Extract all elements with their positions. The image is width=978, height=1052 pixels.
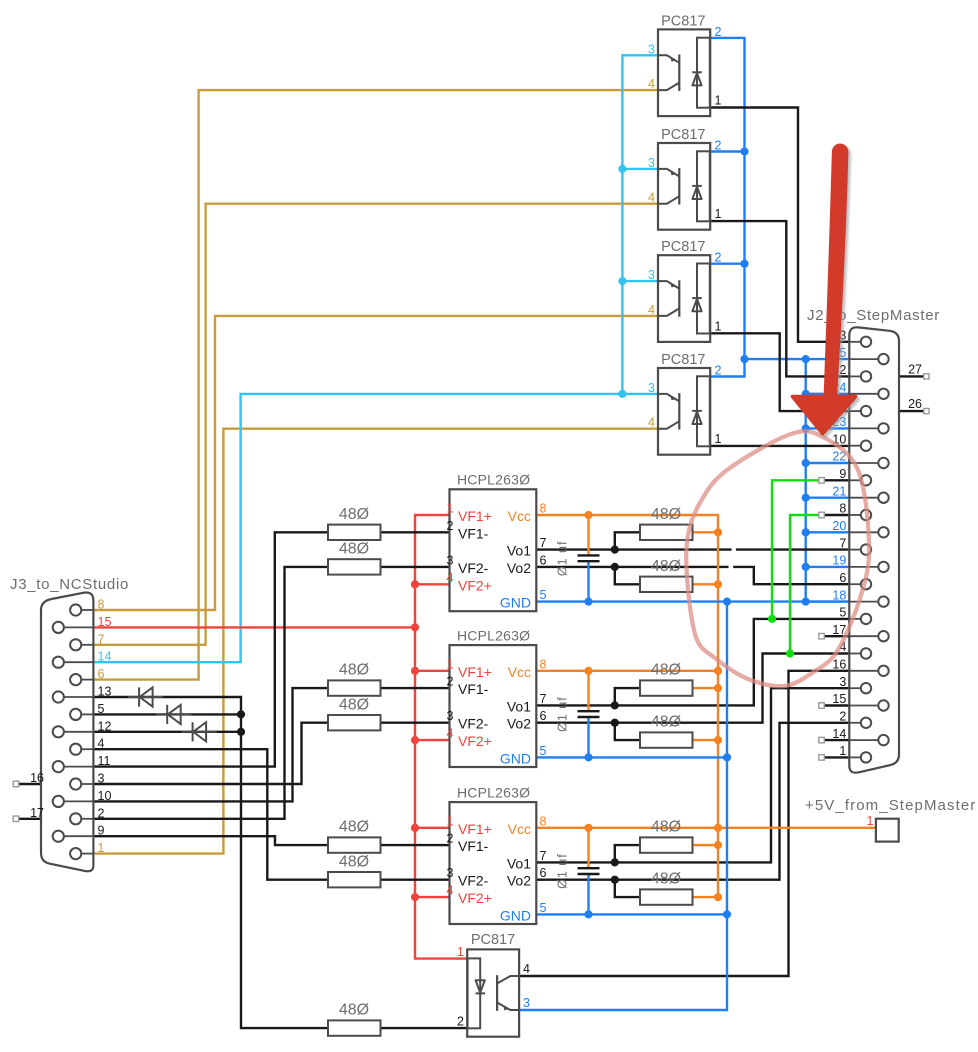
svg-text:1: 1 xyxy=(715,319,722,333)
terminator: J2 pin 15 square xyxy=(819,703,825,709)
wire: J3 pin16 stub xyxy=(19,783,42,785)
terminator: J2 pin 17 square xyxy=(819,633,825,639)
svg-text:4: 4 xyxy=(648,416,655,430)
wire: blue stub to J2 pin 22 xyxy=(806,462,850,464)
svg-text:2: 2 xyxy=(715,251,722,265)
svg-text:48Ø: 48Ø xyxy=(651,506,681,523)
J2 pin 11 circle and stub xyxy=(861,406,871,416)
svg-text:4: 4 xyxy=(648,77,655,91)
wire: black J3 pin4 to HCPL U7 VF2- xyxy=(93,749,328,880)
resistor R5a 480 input U5 pin2 xyxy=(328,525,381,540)
wire: blue GND stub HCPL U7 xyxy=(536,913,727,915)
svg-text:4: 4 xyxy=(447,727,454,741)
J2 pin 17 circle and stub xyxy=(878,631,888,641)
wire: blue stub to J2 pin 23 xyxy=(806,427,850,429)
J2 pin 8 circle and stub xyxy=(861,510,871,520)
wire: HCPL U6 Vo1 to J2 pin5 xyxy=(536,619,849,706)
terminator: J3 17 square xyxy=(13,816,19,822)
svg-text:VF2-: VF2- xyxy=(458,873,489,889)
svg-text:1: 1 xyxy=(457,945,464,959)
svg-text:20: 20 xyxy=(832,519,846,533)
capacitor C1 01uf xyxy=(578,555,600,561)
svg-text:Ø1 uf: Ø1 uf xyxy=(556,541,570,577)
svg-text:VF1+: VF1+ xyxy=(458,664,492,680)
svg-text:Vcc: Vcc xyxy=(508,821,531,837)
J2 pin 23 circle and stub xyxy=(878,423,888,433)
op-amp U6 HCPL2630 optocoupler xyxy=(450,645,537,767)
wire: red anode bus VF1+/VF2+ xyxy=(415,515,467,959)
wire: orange capacitor lead 827.8 xyxy=(587,828,589,869)
junction: blue bus dots xyxy=(740,147,748,155)
svg-text:Vo1: Vo1 xyxy=(507,543,531,559)
svg-text:2: 2 xyxy=(715,364,722,378)
wire: blue stub to J2 pin 21 xyxy=(806,497,850,499)
optocoupler U4 PC817 xyxy=(658,368,710,455)
svg-text:48Ø: 48Ø xyxy=(339,819,369,836)
svg-text:14: 14 xyxy=(98,650,112,664)
svg-text:13: 13 xyxy=(98,685,112,699)
svg-text:15: 15 xyxy=(832,692,846,706)
capacitor C3 01uf xyxy=(578,868,600,874)
wire: black PC817 U1 pin1 to J2 pin13 xyxy=(710,108,849,342)
wire: black PC817 U2 pin1 to J2 pin12 xyxy=(710,221,849,376)
svg-text:VF2+: VF2+ xyxy=(458,890,492,906)
optocoupler U1 PC817 xyxy=(658,29,710,116)
J2 pin 9 circle and stub xyxy=(861,475,871,485)
svg-text:6: 6 xyxy=(540,553,547,567)
wire: blue capacitor lead 515.0 xyxy=(587,561,589,602)
J3 pin 13 circle and stub xyxy=(53,691,64,702)
wire: black stub J2 pin 14 xyxy=(824,739,849,741)
J3 pin 9 circle and stub xyxy=(53,831,64,842)
J3 pin 15 circle and stub xyxy=(53,622,64,633)
svg-text:1: 1 xyxy=(447,814,454,828)
svg-text:VF1+: VF1+ xyxy=(458,821,492,837)
wire: black J3 pin3 to HCPL U6 VF2- xyxy=(93,723,328,784)
J2 pin 1 circle and stub xyxy=(861,752,871,762)
svg-text:3: 3 xyxy=(648,42,655,56)
svg-text:2: 2 xyxy=(715,25,722,39)
terminator: J2 26 square xyxy=(924,409,929,414)
svg-text:VF2+: VF2+ xyxy=(458,577,492,593)
J2 pin 21 circle and stub xyxy=(878,493,888,503)
resistor R5b 480 input U5 pin3 xyxy=(328,559,381,574)
wire: orange HCPL U7 Vcc row to +5V terminal xyxy=(536,827,876,829)
J2 pin 25 circle and stub xyxy=(878,354,888,364)
diode D1 on J3 pin 13 line xyxy=(128,687,163,706)
svg-text:26: 26 xyxy=(908,397,922,411)
svg-text:Vo2: Vo2 xyxy=(507,873,531,889)
svg-text:3: 3 xyxy=(98,772,105,786)
svg-text:48Ø: 48Ø xyxy=(339,506,369,523)
wire: input resistor leads HCPL Vcc 515.0 xyxy=(381,531,450,533)
J2 pin 2 circle and stub xyxy=(861,718,871,728)
svg-text:J3_to_NCStudio: J3_to_NCStudio xyxy=(10,576,129,593)
svg-text:GND: GND xyxy=(500,595,531,611)
J2 pin 12 circle and stub xyxy=(861,371,871,381)
svg-text:18: 18 xyxy=(832,588,846,602)
svg-text:48Ø: 48Ø xyxy=(339,696,369,713)
svg-text:16: 16 xyxy=(30,771,44,785)
J3 pin 5 circle and stub xyxy=(70,709,81,720)
op-amp U5 HCPL2630 optocoupler xyxy=(450,489,537,611)
diode D3 on J3 pin 12 line xyxy=(182,722,217,741)
svg-text:14: 14 xyxy=(832,727,846,741)
resistor R7d 480 output Vo2 xyxy=(640,889,693,904)
capacitor C2 01uf xyxy=(578,711,600,717)
wire: blue GND row HCPL U5 to J2 pin18 xyxy=(536,600,849,602)
svg-text:8: 8 xyxy=(839,502,846,516)
J2 pin 14 circle and stub xyxy=(878,735,888,745)
svg-text:1: 1 xyxy=(98,841,105,855)
resistor R5c 480 output Vo1 xyxy=(640,525,693,540)
svg-text:1: 1 xyxy=(715,94,722,108)
svg-text:4: 4 xyxy=(648,191,655,205)
wire: black stub J2 pin 17 xyxy=(824,635,849,637)
svg-text:8: 8 xyxy=(540,657,547,671)
diode D2 on J3 pin 5 line xyxy=(156,705,191,724)
wire: black stub J2 pin 9 xyxy=(824,479,849,481)
svg-text:Vcc: Vcc xyxy=(508,508,531,524)
J2 pin 18 circle and stub xyxy=(878,596,888,606)
resistor R7a 480 input U7 pin2 xyxy=(328,837,381,852)
J3 pin 14 circle and stub xyxy=(53,657,64,668)
wire: J3 pin17 stub xyxy=(19,818,42,820)
svg-text:2: 2 xyxy=(457,1014,464,1028)
svg-text:11: 11 xyxy=(98,754,111,768)
svg-text:7: 7 xyxy=(839,536,846,550)
resistor R6b 480 input U6 pin3 xyxy=(328,715,381,730)
junction: red bus dots xyxy=(411,580,419,588)
wire: black J3 pin11 to HCPL U5 VF1- xyxy=(93,532,328,766)
wire: black stub J2 pin 1 xyxy=(824,756,849,758)
wire: red stub HCPL U6 pin1 xyxy=(415,670,450,672)
wire: J2 pin27 stub xyxy=(899,375,924,377)
junction: blue GND dots xyxy=(723,598,731,606)
svg-text:48Ø: 48Ø xyxy=(339,662,369,679)
connector +5V_from_StepMaster terminal xyxy=(876,819,899,842)
terminator: J2 pin 1 square xyxy=(819,755,825,761)
svg-text:4: 4 xyxy=(523,962,530,976)
svg-text:21: 21 xyxy=(832,484,846,498)
wire: blue stub to J2 pin 18 xyxy=(806,600,850,602)
wire: HCPL U5 Vo2 to J2 pin6 (with gap) xyxy=(536,566,728,568)
resistor R7b 480 input U7 pin3 xyxy=(328,872,381,887)
svg-text:6: 6 xyxy=(540,709,547,723)
J3 pin 7 circle and stub xyxy=(70,639,81,650)
svg-text:6: 6 xyxy=(98,667,105,681)
J2 pin 5 circle and stub xyxy=(861,614,871,624)
svg-text:GND: GND xyxy=(500,907,531,923)
svg-text:16: 16 xyxy=(832,658,846,672)
svg-text:1: 1 xyxy=(447,502,454,516)
op-amp U7 HCPL2630 optocoupler xyxy=(450,802,537,924)
svg-text:Vo2: Vo2 xyxy=(507,560,531,576)
wire: red stub HCPL pin4 row 827.8 xyxy=(415,896,450,898)
wire: output resistor jogs HCPL Vcc 827.8 xyxy=(615,845,640,862)
svg-text:VF2+: VF2+ xyxy=(458,733,492,749)
resistor R9 480 bottom PC817 input xyxy=(328,1020,381,1035)
resistor R7c 480 output Vo1 xyxy=(640,837,693,852)
wire: black PC817 U3 pin1 to J2 pin11 xyxy=(710,333,849,411)
svg-text:2: 2 xyxy=(839,710,846,724)
svg-text:7: 7 xyxy=(98,632,105,646)
terminator: J2 pin 8 square xyxy=(819,512,825,518)
J2 pin 7 circle and stub xyxy=(861,544,871,554)
svg-text:19: 19 xyxy=(832,554,846,568)
wire: blue stub to J2 pin 20 xyxy=(806,531,850,533)
wire: bottom resistor to PC817 U5 pin2 xyxy=(381,1027,468,1029)
svg-text:7: 7 xyxy=(540,536,547,550)
svg-text:5: 5 xyxy=(839,606,846,620)
J2 pin 22 circle and stub xyxy=(878,458,888,468)
wire: black J3 pin9 to HCPL U7 VF1- xyxy=(93,836,328,845)
svg-text:5: 5 xyxy=(98,702,105,716)
svg-text:8: 8 xyxy=(540,502,547,516)
svg-text:VF1+: VF1+ xyxy=(458,508,492,524)
connector J2_to_StepMaster outline xyxy=(849,327,899,772)
wire: black PC817 U4 pin1 to J2 pin10 xyxy=(710,445,849,447)
wire: blue GND vertical bus xyxy=(519,602,727,1010)
svg-text:5: 5 xyxy=(540,744,547,758)
svg-text:48Ø: 48Ø xyxy=(651,714,681,731)
connector J3_to_NCStudio outline xyxy=(41,592,93,871)
wire: blue stub PC817 U3 pin2 xyxy=(710,263,744,265)
svg-text:3: 3 xyxy=(523,996,530,1010)
J2 pin 20 circle and stub xyxy=(878,527,888,537)
svg-text:2: 2 xyxy=(447,832,454,846)
J2 pin 24 circle and stub xyxy=(878,389,888,399)
resistor R6c 480 output Vo1 xyxy=(640,680,693,695)
wire: blue GND stub HCPL U6 xyxy=(536,756,727,758)
wire: blue capacitor lead 670.8 xyxy=(587,717,589,758)
svg-text:Vo1: Vo1 xyxy=(507,698,531,714)
wire: black J3 pin5 to chain xyxy=(93,713,241,715)
J3 pin 2 circle and stub xyxy=(70,813,81,824)
svg-text:7: 7 xyxy=(540,692,547,706)
svg-text:48Ø: 48Ø xyxy=(339,853,369,870)
svg-text:48Ø: 48Ø xyxy=(339,541,369,558)
terminator: J3 16 square xyxy=(13,781,19,787)
svg-text:4: 4 xyxy=(98,737,105,751)
wire: HCPL U7 Vo1 to J2 pin3 xyxy=(536,688,849,862)
svg-text:Ø1 uf: Ø1 uf xyxy=(556,696,570,732)
svg-text:+5V_from_StepMaster: +5V_from_StepMaster xyxy=(805,797,976,814)
wire: output resistor jogs HCPL Vcc 515.0 xyxy=(615,532,640,549)
wire: black stub J2 pin 8 xyxy=(824,514,849,516)
wire: olive net J3 pin1 to PC817 U4 pin4 xyxy=(93,429,658,854)
wire: HCPL U6 Vo2 to J2 pin4 xyxy=(536,654,849,723)
J3 pin 6 circle and stub xyxy=(70,674,81,685)
wire: olive net J3 pin6 to PC817 U1 pin4 xyxy=(93,90,658,680)
svg-text:1: 1 xyxy=(447,657,454,671)
wire: J2 pin26 stub xyxy=(899,410,924,412)
svg-text:2: 2 xyxy=(447,519,454,533)
svg-text:GND: GND xyxy=(500,750,531,766)
wire: green J2 pin8 to J2 pin4 row xyxy=(790,515,819,654)
svg-text:Vo2: Vo2 xyxy=(507,716,531,732)
svg-text:3: 3 xyxy=(447,709,454,723)
wire: orange HCPL U6 Vcc stub xyxy=(536,670,718,672)
svg-text:9: 9 xyxy=(839,467,846,481)
svg-text:HCPL263Ø: HCPL263Ø xyxy=(457,627,530,643)
wire: red stub HCPL pin4 row 670.8 xyxy=(415,739,450,741)
J3 pin 12 circle and stub xyxy=(53,726,64,737)
svg-text:1: 1 xyxy=(867,814,874,828)
wire: blue link to J2 bus xyxy=(745,358,806,360)
svg-text:3: 3 xyxy=(447,866,454,880)
wire: blue J2 vertical bus xyxy=(805,359,807,601)
J3 pin 8 circle and stub xyxy=(70,604,81,615)
junction: cyan bus junctions xyxy=(618,165,626,173)
svg-text:12: 12 xyxy=(98,719,112,733)
wire: PC817 U5 pin4 to J2 pin16 xyxy=(519,671,849,976)
wire: cyan net J3 pin14 to PC817 pin3 bus xyxy=(93,394,658,662)
wire: output resistor jogs HCPL Vcc 670.8 xyxy=(615,688,640,705)
svg-text:3: 3 xyxy=(648,381,655,395)
wire: input resistor leads HCPL Vcc 827.8 xyxy=(381,844,450,846)
svg-text:8: 8 xyxy=(540,814,547,828)
wire: red stub HCPL pin4 row 515.0 xyxy=(415,583,450,585)
wire: cyan stub PC817 U3 pin3 xyxy=(622,280,658,282)
wire: black J3 pin12 to chain xyxy=(93,731,241,733)
optocoupler U2 PC817 xyxy=(658,143,710,230)
J2 pin 16 circle and stub xyxy=(878,666,888,676)
J3 pin 3 circle and stub xyxy=(70,778,81,789)
svg-text:VF1-: VF1- xyxy=(458,525,489,541)
wire: orange Vcc bus xyxy=(536,515,718,897)
wire: blue stub PC817 U2 pin2 xyxy=(710,150,744,152)
svg-text:7: 7 xyxy=(540,849,547,863)
svg-text:2: 2 xyxy=(447,675,454,689)
svg-text:VF1-: VF1- xyxy=(458,681,489,697)
svg-text:2: 2 xyxy=(715,139,722,153)
J2 pin 10 circle and stub xyxy=(861,441,871,451)
wire: black J3 pin10 to HCPL U6 VF1- xyxy=(93,688,328,801)
svg-text:PC817: PC817 xyxy=(661,13,705,29)
wire: orange output resistor leads 827.8 xyxy=(693,844,719,846)
wire: HCPL U7 Vo2 to J2 pin2 xyxy=(536,723,849,880)
junction: diode chain dots xyxy=(237,710,245,718)
J2 pin 13 circle and stub xyxy=(861,337,871,347)
svg-text:Vcc: Vcc xyxy=(508,664,531,680)
svg-text:9: 9 xyxy=(98,824,105,838)
optocoupler U3 PC817 xyxy=(658,255,710,342)
wire: orange capacitor lead 670.8 xyxy=(587,671,589,712)
wire: blue PC817 pin2 bus xyxy=(710,38,744,377)
wire: blue capacitor lead 827.8 xyxy=(587,874,589,915)
J2 pin 19 circle and stub xyxy=(878,562,888,572)
J3 pin 1 circle and stub xyxy=(70,848,81,859)
svg-text:4: 4 xyxy=(447,571,454,585)
junction: orange dots xyxy=(584,511,592,519)
svg-text:PC817: PC817 xyxy=(661,239,705,255)
svg-text:6: 6 xyxy=(839,571,846,585)
svg-text:Ø1 uf: Ø1 uf xyxy=(556,853,570,889)
svg-text:15: 15 xyxy=(98,615,112,629)
svg-text:1: 1 xyxy=(715,432,722,446)
svg-text:10: 10 xyxy=(98,789,112,803)
wire: red stub HCPL U7 pin1 xyxy=(415,827,450,829)
svg-text:3: 3 xyxy=(839,675,846,689)
wire: green J2 pin9 to J2 pin5 row xyxy=(772,480,819,619)
svg-text:3: 3 xyxy=(447,553,454,567)
svg-text:3: 3 xyxy=(648,268,655,282)
J3 pin 11 circle and stub xyxy=(53,761,64,772)
svg-text:4: 4 xyxy=(447,884,454,898)
svg-text:8: 8 xyxy=(98,598,105,612)
wire: olive net J3 pin8 to PC817 U3 pin4 xyxy=(93,316,658,610)
svg-text:PC817: PC817 xyxy=(661,127,705,143)
J3 pin 10 circle and stub xyxy=(53,796,64,807)
resistor R6d 480 output Vo2 xyxy=(640,732,693,747)
svg-text:2: 2 xyxy=(98,806,105,820)
svg-text:4: 4 xyxy=(648,303,655,317)
svg-text:48Ø: 48Ø xyxy=(651,662,681,679)
svg-text:HCPL263Ø: HCPL263Ø xyxy=(457,472,530,488)
optocoupler U8 PC817 (bottom) xyxy=(467,949,519,1036)
svg-text:PC817: PC817 xyxy=(471,932,515,948)
wire: blue stub to J2 pin 25 xyxy=(806,358,850,360)
wire: cyan stub PC817 U2 pin3 xyxy=(622,168,658,170)
wire: black stub J2 pin 15 xyxy=(824,704,849,706)
J3 pin 4 circle and stub xyxy=(70,744,81,755)
wire: red net J3 pin15 to red bus xyxy=(93,626,415,628)
resistor R5d 480 output Vo2 xyxy=(640,577,693,592)
svg-text:VF2-: VF2- xyxy=(458,716,489,732)
wire: HCPL U5 Vo1 to J2 pin7 (with gap) xyxy=(536,548,731,550)
svg-text:27: 27 xyxy=(908,362,922,376)
wire: black J3 pin2 to HCPL U5 VF2- xyxy=(93,567,328,819)
svg-text:48Ø: 48Ø xyxy=(651,871,681,888)
wire: input resistor leads HCPL Vcc 670.8 xyxy=(381,687,450,689)
svg-text:HCPL263Ø: HCPL263Ø xyxy=(457,784,530,800)
wire: orange output resistor leads 670.8 xyxy=(693,687,719,689)
svg-text:VF2-: VF2- xyxy=(458,560,489,576)
svg-text:Vo1: Vo1 xyxy=(507,855,531,871)
J2 pin 15 circle and stub xyxy=(878,700,888,710)
svg-text:48Ø: 48Ø xyxy=(651,558,681,575)
svg-text:17: 17 xyxy=(30,806,44,820)
svg-text:1: 1 xyxy=(839,744,846,758)
svg-text:PC817: PC817 xyxy=(661,352,705,368)
annotation: red arrow xyxy=(793,144,856,434)
annotation: pink freehand highlight ellipse xyxy=(686,431,869,686)
wire: orange capacitor lead 515.0 xyxy=(587,515,589,556)
svg-text:6: 6 xyxy=(540,866,547,880)
wire: blue stub to J2 pin 19 xyxy=(806,566,850,568)
svg-text:1: 1 xyxy=(715,207,722,221)
svg-text:3: 3 xyxy=(648,156,655,170)
svg-text:5: 5 xyxy=(540,901,547,915)
wire: orange output resistor leads 515.0 xyxy=(693,531,719,533)
svg-text:48Ø: 48Ø xyxy=(651,819,681,836)
terminator: J2 pin 9 square xyxy=(819,478,825,484)
wire: olive net J3 pin7 to PC817 U2 pin4 xyxy=(93,204,658,645)
wire: black diode chain J3 pin13 xyxy=(93,697,328,1028)
J2 pin 6 circle and stub xyxy=(861,579,871,589)
wire: blue stub to J2 pin 24 xyxy=(806,393,850,395)
J2 pin 4 circle and stub xyxy=(861,648,871,658)
resistor R6a 480 input U6 pin2 xyxy=(328,680,381,695)
J2 pin 3 circle and stub xyxy=(861,683,871,693)
terminator: J2 27 square xyxy=(924,374,929,379)
svg-text:48Ø: 48Ø xyxy=(339,1002,369,1019)
terminator: J2 pin 14 square xyxy=(819,737,825,743)
svg-text:5: 5 xyxy=(540,588,547,602)
svg-text:VF1-: VF1- xyxy=(458,838,489,854)
